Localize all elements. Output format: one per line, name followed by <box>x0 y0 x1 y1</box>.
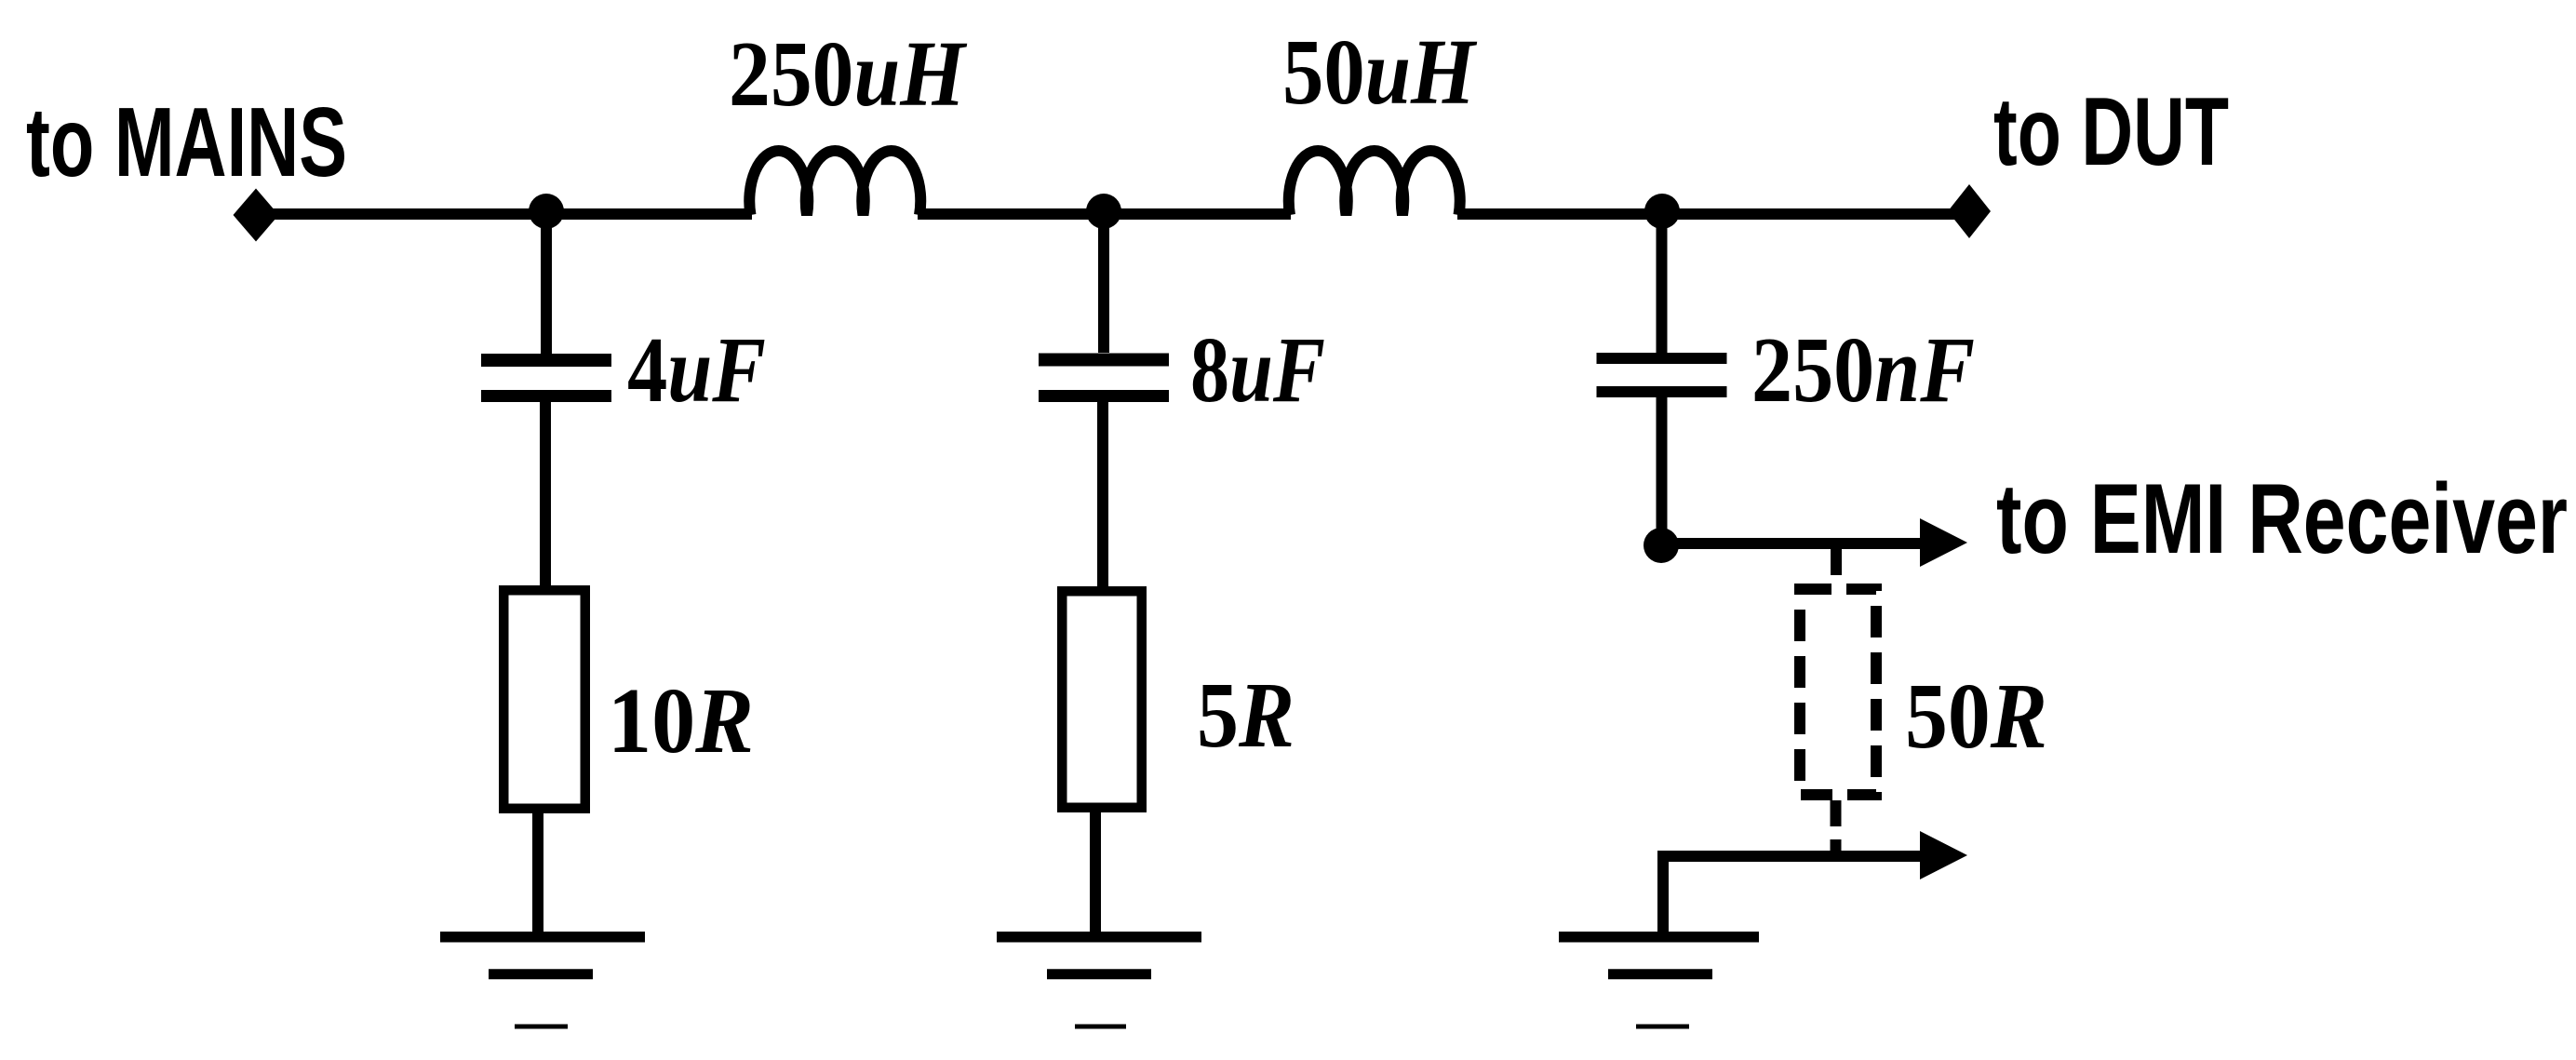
svg-text:250uH: 250uH <box>729 21 968 126</box>
wire: node B down to C2 <box>1098 214 1109 353</box>
node D junction dot <box>1644 528 1679 563</box>
terminal diamond to DUT <box>1948 184 1991 238</box>
wire: to DUT segment <box>1457 208 1969 220</box>
wire: R1 to ground <box>532 808 543 932</box>
capacitor C2 8uF <box>1039 360 1169 396</box>
svg-text:5R: 5R <box>1197 663 1295 767</box>
svg-text:10R: 10R <box>608 668 754 772</box>
inductor L1 250uH <box>749 151 920 215</box>
svg-text:50R: 50R <box>1905 664 2047 768</box>
wire: EMI node to arrow <box>1661 538 1920 549</box>
svg-text:50uH: 50uH <box>1282 20 1478 124</box>
ground G2 <box>997 937 1201 1026</box>
wire: dashed lead from EMI wire to R3 <box>1831 549 1842 584</box>
resistor R2 5R <box>1062 591 1142 808</box>
svg-text:to EMI Receiver: to EMI Receiver <box>1996 463 2568 574</box>
resistor R1 10R <box>503 590 585 809</box>
node A junction dot <box>529 194 564 229</box>
capacitor C3 250nF <box>1597 358 1727 392</box>
wire: between L1 and L2 <box>918 208 1291 220</box>
resistor R3 50R (dashed) <box>1800 589 1876 795</box>
ground G3 <box>1559 937 1759 1026</box>
wire: node A down to C1 <box>541 214 552 354</box>
wire: R2 to ground <box>1090 808 1101 932</box>
svg-text:4uF: 4uF <box>627 317 766 422</box>
svg-text:to DUT: to DUT <box>1993 78 2229 186</box>
terminal diamond to MAINS <box>234 189 279 242</box>
wire: C3 down to EMI node <box>1657 397 1668 543</box>
arrow ground reference to EMI Receiver <box>1920 831 1967 879</box>
svg-text:250nF: 250nF <box>1751 317 1975 422</box>
node C junction dot <box>1644 194 1680 229</box>
wire: node C down to C3 <box>1657 214 1668 353</box>
svg-text:8uF: 8uF <box>1190 317 1325 422</box>
wire: mains input segment <box>256 208 752 220</box>
capacitor C1 4uF <box>481 360 611 396</box>
arrow to EMI Receiver <box>1920 518 1967 567</box>
wire: C1 to R1 <box>540 402 551 586</box>
node B junction dot <box>1086 194 1121 229</box>
inductor L2 50uH <box>1289 151 1460 215</box>
wire: dashed lead from R3 to ground wire <box>1831 800 1842 851</box>
wire: ground return with arrow <box>1663 856 1920 932</box>
wire: C2 to R2 <box>1097 402 1108 586</box>
svg-text:to MAINS: to MAINS <box>26 87 347 197</box>
ground G1 <box>440 937 645 1026</box>
